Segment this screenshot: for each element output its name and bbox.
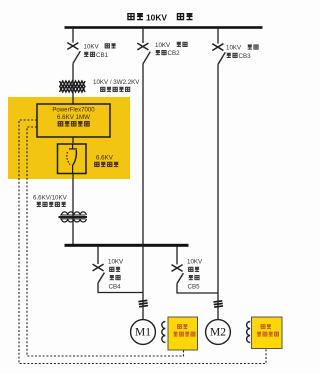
svg-text:10KV / 3W2.2KV: 10KV / 3W2.2KV xyxy=(93,79,140,86)
wire feeder1 to VFD box xyxy=(72,63,74,104)
transfer control cabinet box M1 xyxy=(168,317,198,350)
isolation switch box 6.6KV xyxy=(58,144,87,174)
yellow VFD enclosure block xyxy=(8,97,130,179)
svg-text:10KV: 10KV xyxy=(155,42,171,49)
cable symbol on M2 feeder xyxy=(213,301,223,307)
switch blade CB1 xyxy=(73,51,80,63)
wire feeder1 top stub xyxy=(72,28,74,43)
wire feeder2 down to M1 xyxy=(142,64,144,320)
wire VFD box to isolation switch box xyxy=(72,137,74,143)
breaker CB4 X symbol xyxy=(93,264,104,271)
svg-text:M1: M1 xyxy=(135,326,151,338)
wire feeder3 top stub xyxy=(217,28,219,44)
label M1 cabinet 切换 控制柜 xyxy=(174,325,195,336)
lower output bus xyxy=(65,244,189,247)
motor M1 circle xyxy=(131,320,156,345)
svg-text:PowerFlex7000: PowerFlex7000 xyxy=(52,107,95,114)
label CB3 10KV旁路 / 开关CB3 xyxy=(227,45,258,57)
switch blade CB3 xyxy=(218,52,225,64)
svg-text:CB5: CB5 xyxy=(188,284,201,291)
switch blade CB5 xyxy=(177,273,183,283)
breaker CB1 X symbol xyxy=(67,43,78,50)
svg-text:CB1: CB1 xyxy=(96,52,109,59)
breaker CB3 X symbol xyxy=(212,44,223,51)
svg-text:6.6KV 1MW: 6.6KV 1MW xyxy=(57,114,90,121)
svg-text:6.6KV/10KV: 6.6KV/10KV xyxy=(33,195,68,202)
svg-text:CB4: CB4 xyxy=(109,284,122,291)
label CB2 10KV 旁路 / 开关CB2 xyxy=(156,42,187,54)
breaker CB2 X symbol xyxy=(137,43,148,50)
wire feeder3 down to M2 xyxy=(217,64,219,319)
wire switch box to output transformer xyxy=(72,174,74,245)
isolation switch symbol xyxy=(67,144,77,174)
svg-text:6.6KV: 6.6KV xyxy=(96,155,114,162)
winding coil at M2 xyxy=(247,322,251,343)
svg-text:CB2: CB2 xyxy=(168,50,181,57)
switch blade CB4 xyxy=(98,273,104,283)
breaker CB5 X symbol xyxy=(172,265,183,272)
input transformer winding rows xyxy=(60,81,86,92)
wire feeder2 top stub xyxy=(142,28,144,43)
transfer control cabinet box M2 xyxy=(252,317,283,349)
svg-text:10KV: 10KV xyxy=(108,259,124,266)
svg-text:10KV: 10KV xyxy=(84,43,100,50)
svg-text:M2: M2 xyxy=(210,326,226,338)
motor M2 circle xyxy=(206,320,231,345)
svg-text:10KV: 10KV xyxy=(146,12,167,22)
dashed control wiring outer path to M2 cabinet xyxy=(19,120,266,364)
switch blade CB2 xyxy=(143,52,150,64)
PowerFlex7000 VFD box xyxy=(37,104,110,137)
svg-text:10KV: 10KV xyxy=(226,45,242,52)
title 电网10KV 母线 xyxy=(128,14,193,20)
wire CB4 to M1 feeder xyxy=(98,283,143,293)
output transformer 6.6KV/10KV xyxy=(59,212,88,222)
breaker CB5 branch stub xyxy=(176,247,178,265)
cable symbol on M1 feeder xyxy=(138,300,148,306)
svg-text:10KV: 10KV xyxy=(187,259,203,266)
top bus 电网10KV 母线 xyxy=(65,26,263,29)
dashed control wiring inner path to M1 cabinet xyxy=(19,120,266,364)
breaker CB4 branch stub xyxy=(97,247,99,265)
label CB1 10KV 进线 / 开关CB1 xyxy=(84,44,115,57)
wire CB5 to M2 feeder xyxy=(177,284,218,294)
label M2 cabinet 切换 控制柜 xyxy=(257,325,278,336)
winding coil at M1 xyxy=(162,322,166,343)
svg-text:CB3: CB3 xyxy=(239,53,252,60)
